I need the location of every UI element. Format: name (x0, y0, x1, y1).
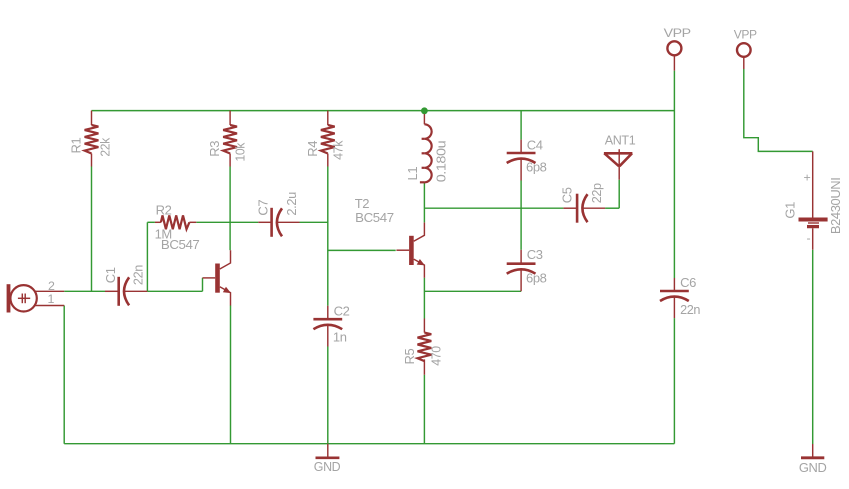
svg-text:BC547: BC547 (355, 210, 394, 225)
wire R5 to bottom bus (423, 375, 425, 444)
svg-text:C7: C7 (256, 200, 271, 216)
svg-text:L1: L1 (405, 167, 420, 181)
node junction L1/bus (421, 107, 428, 114)
wire base jog up (202, 278, 204, 292)
wire top supply bus (92, 110, 675, 112)
wire battery to GND (812, 250, 814, 444)
svg-text:1n: 1n (333, 330, 347, 345)
wire L1 to T2 collector (423, 184, 425, 223)
svg-text:C2: C2 (334, 304, 350, 319)
svg-text:C5: C5 (560, 187, 575, 203)
ground GND left (316, 444, 340, 458)
wire tank to C5 (424, 207, 563, 209)
wire bottom ground bus (64, 443, 674, 445)
wire T1 emitter column (230, 305, 232, 443)
svg-text:GND: GND (799, 460, 827, 475)
svg-text:R2: R2 (156, 202, 172, 217)
svg-text:C6: C6 (680, 275, 696, 290)
wire T2 base (328, 249, 396, 251)
svg-text:10k: 10k (232, 142, 247, 161)
capacitor C7 (258, 208, 299, 237)
wire R2 left stub (147, 221, 155, 223)
wire C4 to C3 (520, 181, 522, 250)
svg-text:-: - (807, 231, 811, 245)
svg-text:6p8: 6p8 (526, 160, 547, 175)
svg-text:470: 470 (429, 346, 444, 366)
svg-text:47k: 47k (331, 140, 346, 160)
svg-text:R4: R4 (305, 141, 320, 157)
wire C4 column top (520, 111, 522, 140)
capacitor C5 (563, 194, 605, 223)
svg-text:2.2u: 2.2u (284, 192, 299, 216)
svg-text:VPP: VPP (664, 26, 691, 40)
svg-text:G1: G1 (783, 202, 798, 219)
capacitor C3 (507, 250, 536, 291)
svg-text:R5: R5 (402, 349, 417, 365)
wire C2 to bottom bus (327, 347, 329, 444)
svg-text:C4: C4 (527, 137, 543, 152)
wire emitter to C3 (424, 290, 521, 292)
microphone MIC (7, 284, 65, 312)
svg-text:R3: R3 (207, 141, 222, 157)
capacitor C1 (105, 277, 147, 306)
svg-text:22k: 22k (98, 137, 113, 156)
svg-text:R1: R1 (69, 138, 84, 154)
wire VPP1 column upper (673, 71, 675, 278)
wire antenna drop (618, 180, 620, 209)
svg-text:22n: 22n (680, 302, 700, 317)
wire R2 left drop (146, 222, 148, 291)
transistor Q2 T2 (396, 223, 425, 278)
wire VPP1 column lower (673, 318, 675, 444)
svg-text:BC547: BC547 (161, 237, 200, 252)
power VPP1 (667, 41, 681, 70)
wire R1 column (91, 167, 93, 292)
transistor Q1 T1 (203, 250, 232, 305)
wire mic pin1 column (63, 306, 65, 444)
wire mic pin2 to C1 (64, 290, 105, 292)
svg-text:C3: C3 (527, 247, 543, 262)
svg-text:22n: 22n (130, 265, 145, 285)
svg-text:VPP: VPP (734, 28, 757, 42)
resistor R5 (418, 319, 432, 375)
battery G1 (799, 151, 828, 249)
capacitor C2 (313, 306, 342, 347)
svg-text:B2430UNI: B2430UNI (828, 178, 843, 235)
power VPP2 (737, 43, 751, 69)
capacitor C6 (660, 278, 689, 318)
capacitor C4 (507, 140, 536, 181)
wire T2 emitter to R5 (423, 278, 425, 319)
resistor R3 (223, 111, 237, 167)
resistor R4 (321, 111, 335, 167)
svg-text:2: 2 (48, 279, 55, 293)
resistor R2 (155, 215, 196, 229)
svg-text:+: + (804, 171, 811, 185)
wire R3 column (229, 167, 231, 251)
svg-text:ANT1: ANT1 (605, 133, 636, 148)
wire R4 column (327, 167, 329, 306)
wire C5 to antenna corner (605, 207, 619, 209)
inductor L1 (420, 114, 432, 184)
svg-text:22p: 22p (589, 183, 604, 203)
svg-text:1: 1 (48, 292, 55, 306)
svg-text:GND: GND (314, 459, 341, 474)
wire C7 to R4 column (300, 221, 328, 223)
svg-text:6p8: 6p8 (526, 271, 547, 286)
antenna ANT1 (604, 149, 633, 180)
svg-text:0.180u: 0.180u (434, 141, 449, 183)
wire VPP2 to battery (744, 69, 813, 151)
wire R2 to C7 (196, 221, 258, 223)
ground GND right (801, 444, 824, 458)
wire C1 to base jog (147, 290, 202, 292)
resistor R1 (85, 111, 99, 167)
svg-text:C1: C1 (103, 267, 118, 283)
